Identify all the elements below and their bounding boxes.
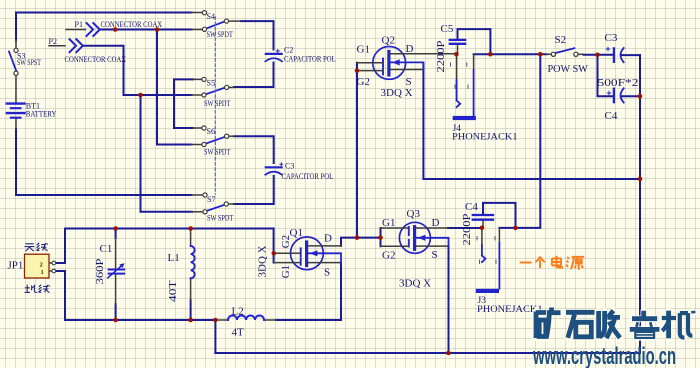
label Q3 S [432, 249, 438, 261]
pin L2 left [215, 319, 228, 321]
label C3 500F [605, 32, 618, 44]
wire antenna node JP1 pin2 [55, 229, 65, 264]
label SW SPDT S7 [207, 214, 234, 223]
label Q2 D [406, 43, 414, 55]
transistor Q3 3DQ X [381, 222, 449, 253]
pin S4 common [229, 20, 241, 22]
junction C4 right [638, 94, 643, 99]
pin S7 throw1 [192, 194, 203, 196]
wire C5 top loop [458, 29, 491, 54]
label 2200P C4 [460, 213, 473, 245]
pin S6 throw1 [193, 127, 202, 129]
label CAPACITOR POL C2 [284, 54, 336, 64]
wire C1 top stub [115, 229, 117, 239]
junction Q3 gate node [378, 235, 383, 240]
label SW SPDT S6 [204, 148, 231, 157]
label C3 [285, 162, 294, 171]
pin number JP1 2 [40, 261, 43, 268]
label Q2 G2 [357, 76, 370, 88]
wire top-left horizontal [16, 12, 192, 14]
label JP1 [8, 260, 24, 272]
pin S4 throw1 [192, 12, 203, 14]
label 3DQ X Q2 [381, 87, 413, 99]
label J3 [478, 296, 487, 306]
junction P1 wire [113, 27, 118, 32]
wire S6 common to C3 top [234, 136, 274, 163]
junction Q3 source ground [446, 351, 451, 356]
pin JP1 pin2 [49, 262, 52, 264]
label Q3 G2 [382, 250, 395, 262]
wire Q2 source down and right to C34 column [423, 64, 640, 179]
label S2 [555, 34, 567, 46]
junction Q2 source wire [638, 177, 643, 182]
wire S4 common to C2 top [241, 21, 274, 49]
wire Q1 gate column [273, 229, 275, 263]
switch S3 SW SPST [9, 48, 18, 75]
pin S5 common [229, 86, 234, 88]
label S7 [207, 195, 215, 204]
label S3 [17, 52, 25, 61]
label CONNECTOR COAX P2 [65, 54, 127, 64]
label 2200P C5 [434, 40, 447, 72]
wire P2 bend to S5 [83, 46, 192, 95]
junction C5 bottom J4 tip [454, 52, 459, 57]
junction L2 ground node [213, 318, 218, 323]
wire ground node JP1 pin1 [55, 271, 65, 320]
wire C3 right to column [623, 54, 641, 56]
label Q1 S [324, 267, 330, 279]
junction C5 top loop [488, 52, 493, 57]
pin S6 throw2 [192, 144, 202, 146]
label C2 [284, 46, 293, 55]
label antenna 天线 [25, 243, 48, 251]
junction Q2 G2 [355, 68, 360, 73]
label Q1 G2 [280, 235, 292, 248]
pin S2 left [547, 53, 552, 55]
label 360P [93, 258, 106, 284]
junction C4b bottom J3 tip [480, 226, 485, 231]
junction Q1 drain node [355, 235, 360, 240]
pin JP1 pin1 [49, 270, 52, 272]
wire L2 right to Q1 source [276, 263, 341, 320]
wire S5 throw to S6 throw [174, 79, 193, 128]
pin S3 to battery [15, 75, 17, 103]
pin C1 bottom [115, 275, 117, 305]
transistor Q2 3DQ X [357, 47, 456, 80]
wire Q3 source down to ground [448, 246, 450, 353]
pin S2 right [578, 53, 583, 55]
label power note 一个电源 (orange) [520, 256, 585, 270]
transistor Q1 3DQ X [274, 237, 341, 270]
label Q3 D [432, 217, 440, 229]
wire tank bottom rail [65, 319, 215, 321]
label S4 [207, 12, 215, 21]
junction L1 top [188, 226, 193, 231]
label CONNECTOR COAX P1 [101, 19, 163, 29]
switch S4 SW SPDT [202, 11, 228, 32]
pin L1 bottom [190, 278, 192, 300]
wire Q3 drain to J3 tip [448, 227, 482, 229]
wire battery top vertical [15, 13, 17, 41]
watermark logo 矿石收音机 [536, 308, 694, 339]
pin S7 common [229, 203, 235, 205]
pin S3 top [15, 40, 17, 48]
label Q1 D [324, 233, 332, 245]
label 3DQ X Q1 [257, 245, 269, 277]
selection dashed line [214, 17, 216, 194]
capacitor C4c 500F [607, 88, 623, 102]
wire C2 bottom to S5 common [234, 63, 274, 88]
wire right column down to ground rail [639, 55, 641, 353]
junction C4b top loop [513, 226, 518, 231]
capacitor C3 CAPACITOR POL [265, 163, 282, 175]
wire J4 to S2 [474, 53, 547, 55]
wire C3 bottom to S7 common [234, 176, 274, 204]
label J4 [453, 124, 462, 134]
junction C1 bottom [113, 318, 118, 323]
wire ground down-left corner [214, 320, 216, 353]
label P2 [49, 37, 57, 46]
phonejack J3 PHONEJACK1 [476, 228, 500, 293]
junction C1 top [113, 226, 118, 231]
label L1 [168, 252, 180, 264]
switch S6 SW SPDT [202, 126, 229, 147]
capacitor C4b 2200P [473, 215, 493, 220]
wire node x140 down to S7 [141, 95, 193, 212]
label PHONEJACK1 J3 [477, 304, 543, 315]
label C4 2200P [465, 201, 478, 213]
wire C1 bottom stub [115, 304, 117, 320]
label PHONEJACK1 J4 [452, 132, 518, 143]
wire L1 bottom stub [190, 300, 192, 320]
junction P2 to S7 branch [138, 93, 143, 98]
pin number JP1 1 [41, 269, 44, 276]
label Q2 [382, 35, 395, 47]
pin P2 [49, 45, 65, 47]
label S6 [207, 127, 215, 136]
label ground 地线 [25, 285, 50, 293]
switch S2 POW SW [551, 48, 578, 56]
pin C4b bottom [482, 220, 484, 228]
pin P1 [66, 29, 86, 31]
label 3DQ X Q3 [399, 278, 431, 290]
wire ground bottom rail [215, 352, 640, 354]
wire P1 to S4 [100, 29, 192, 31]
label SW SPDT S4 [207, 30, 234, 39]
label Q2 S [406, 76, 412, 88]
label BT1 [26, 102, 40, 111]
label SW SPST [17, 58, 41, 67]
label Q3 G1 [382, 217, 395, 229]
label C5 [441, 23, 454, 35]
label S5 [207, 79, 215, 88]
phonejack J4 PHONEJACK1 [451, 54, 476, 120]
wire S2 to C3 [584, 54, 614, 56]
wire C4 parallel loop [598, 55, 614, 96]
switch S7 SW SPDT [203, 193, 229, 214]
junction Q1 G2 [272, 251, 277, 256]
wire node x157 down to S6 [157, 30, 192, 145]
switch S5 SW SPDT [202, 77, 229, 97]
pin S7 throw2 [192, 211, 203, 213]
inductor L2 4T [228, 316, 264, 321]
junction L1 bottom [188, 318, 193, 323]
wire power drop x540 to J3 [499, 54, 540, 228]
battery BT1 [7, 104, 25, 118]
wire battery bottom to S7 [16, 129, 192, 195]
pin L1 top [190, 229, 192, 247]
label P1 [75, 20, 83, 29]
label BATTERY [26, 109, 57, 119]
label C1 [100, 243, 113, 255]
pin C1 top [115, 238, 117, 269]
label 4T [232, 327, 245, 339]
pin battery bottom [15, 118, 17, 129]
pin C5 bottom [457, 44, 459, 54]
label 500F*2 [598, 76, 639, 89]
pin S4 throw2 [192, 29, 203, 31]
label Q3 [407, 208, 421, 220]
label Q1 [290, 227, 303, 239]
junction P1 to S6 branch [155, 27, 160, 32]
wire tank top rail [65, 228, 274, 230]
label POW SW [548, 64, 588, 75]
pin S5 throw1 [193, 78, 202, 80]
label L2 [232, 306, 244, 318]
junction C4 loop top [595, 53, 600, 58]
pin S5 throw2 [192, 94, 202, 96]
label 40T [166, 280, 179, 302]
watermark url www.crystalradio.cn [533, 343, 676, 368]
connector P2 CONNECTOR COAX [69, 39, 83, 53]
label C4 500F [605, 110, 618, 122]
wire node to Q2 gates vertical [356, 63, 358, 238]
connector P1 CONNECTOR COAX [86, 22, 100, 36]
capacitor C3b 500F [606, 47, 623, 62]
capacitor C5 2200P [450, 40, 465, 44]
label SW SPDT S5 [204, 99, 231, 108]
label Q2 G1 [357, 44, 370, 56]
wire Q3 gate column [380, 228, 382, 246]
pin L2 right [264, 319, 276, 321]
label Q1 G1 [280, 265, 292, 278]
wire Q1 drain up to node [341, 238, 381, 246]
inductor L1 40T [191, 246, 195, 278]
capacitor C2 CAPACITOR POL [265, 50, 282, 62]
connector JP1 [25, 254, 56, 278]
label CAPACITOR POL C3 [282, 171, 334, 181]
junction power drop [538, 52, 543, 57]
wire C4 right to column [623, 95, 641, 97]
capacitor C1 variable 360P [108, 263, 125, 278]
pin S6 common [229, 135, 234, 137]
wire C4b top loop [483, 203, 516, 228]
